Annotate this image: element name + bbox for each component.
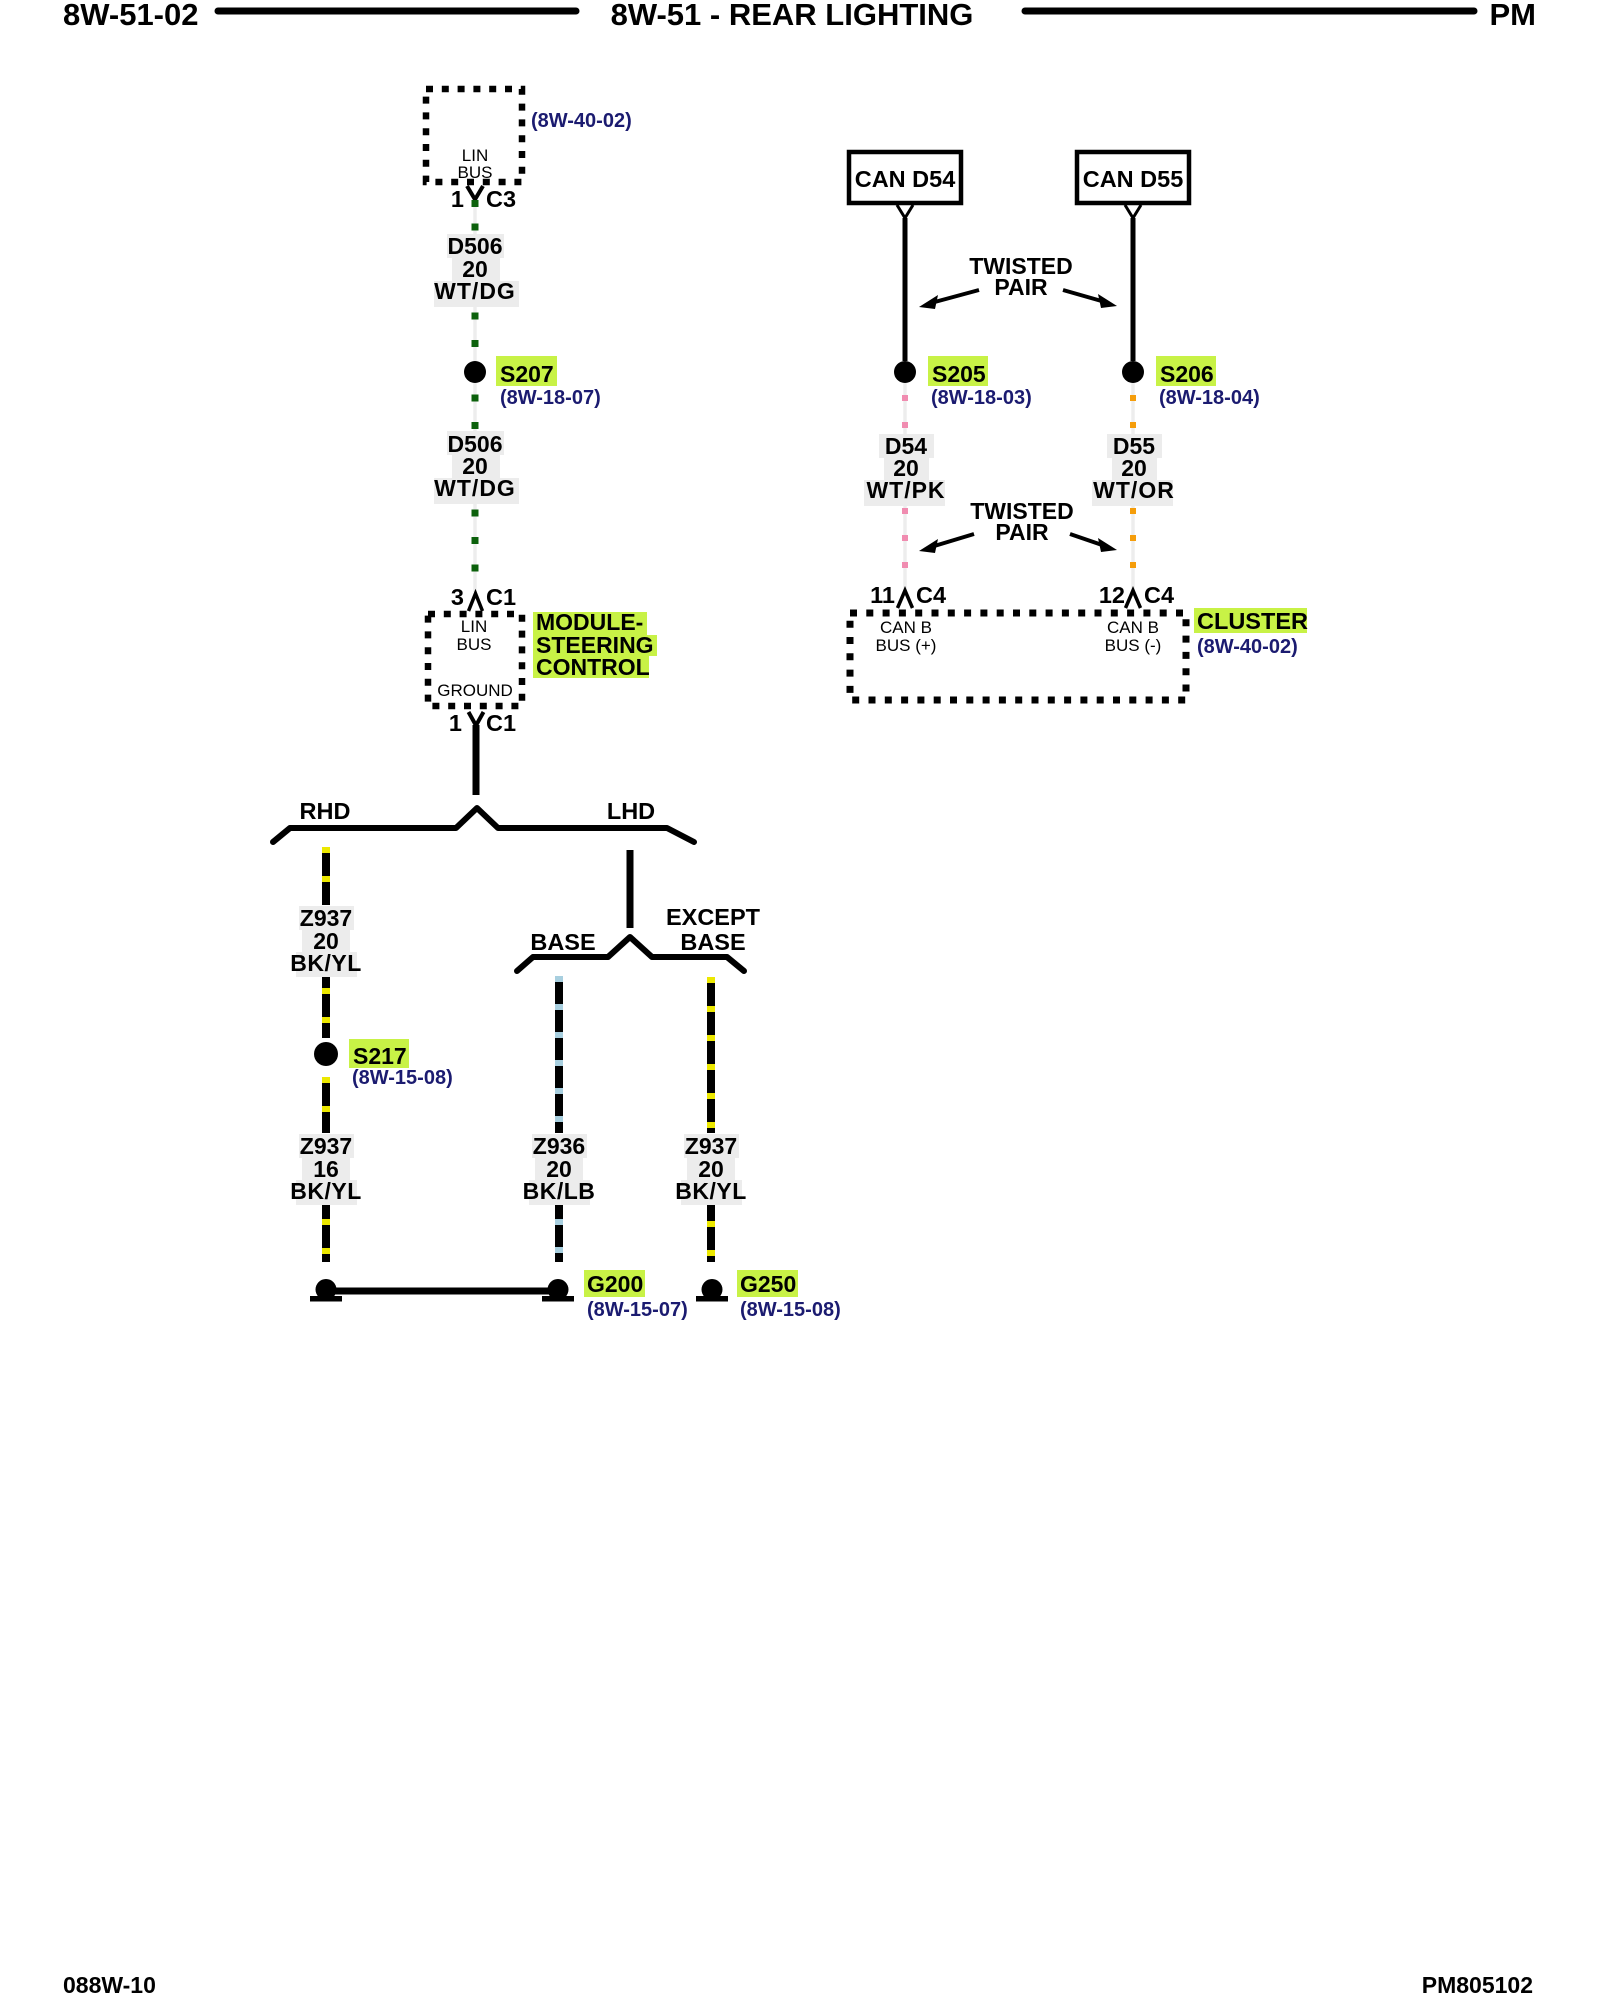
note TWISTED PAIR upper <box>969 253 1073 300</box>
wire Z937 20 BK/YL upper (RHD) <box>322 847 330 905</box>
svg-text:WT/DG: WT/DG <box>434 278 516 304</box>
wire Z937 16 BK/YL lower <box>322 1077 330 1133</box>
svg-text:PAIR: PAIR <box>995 519 1049 545</box>
header rule right <box>1025 8 1474 15</box>
arrow right lower <box>1070 534 1117 552</box>
left column <box>273 89 841 1321</box>
svg-text:C4: C4 <box>1144 582 1174 608</box>
ground G200 dome right <box>542 1279 574 1302</box>
svg-text:BUS (-): BUS (-) <box>1105 636 1162 655</box>
wire label Z937 20 BK/YL <box>290 905 362 977</box>
wire Z936 20 BK/LB (BASE) <box>555 976 563 1133</box>
LHD wire <box>627 850 634 928</box>
svg-text:BUS (+): BUS (+) <box>876 636 937 655</box>
wire Z937 to ground G250 <box>707 1205 715 1262</box>
svg-text:PM: PM <box>1490 0 1537 32</box>
svg-text:(8W-18-04): (8W-18-04) <box>1159 387 1260 409</box>
svg-text:CONTROL: CONTROL <box>536 654 650 680</box>
ground G250 label <box>737 1270 798 1297</box>
module name MODULE-STEERING CONTROL highlighted <box>533 609 657 680</box>
svg-text:BUS: BUS <box>458 163 493 182</box>
component name CLUSTER highlighted <box>1194 608 1308 634</box>
branch split BASE / EXCEPT BASE <box>517 937 744 971</box>
arrow left lower <box>919 534 974 553</box>
ground bus wire <box>326 1288 558 1295</box>
component box CLUSTER dashed <box>850 613 1186 700</box>
svg-text:(8W-15-08): (8W-15-08) <box>740 1299 841 1321</box>
svg-text:EXCEPT: EXCEPT <box>666 904 761 930</box>
header rule left <box>218 8 576 15</box>
wire label D506 20 WT/DG (upper) <box>434 233 519 307</box>
svg-text:C1: C1 <box>486 584 516 610</box>
connector pin label 12 C4 with male symbol <box>1099 582 1174 608</box>
svg-text:(8W-40-02): (8W-40-02) <box>531 110 632 132</box>
node box CAN D55 <box>1077 152 1189 203</box>
wire D54 solid upper <box>903 218 908 361</box>
connector symbol under CAN D55 <box>1125 205 1141 218</box>
svg-text:CAN D54: CAN D54 <box>855 166 956 192</box>
svg-text:BK/LB: BK/LB <box>523 1178 596 1204</box>
svg-text:BASE: BASE <box>680 929 745 955</box>
wire D54 WT/PK dotted <box>903 383 907 590</box>
svg-text:G250: G250 <box>740 1271 796 1297</box>
splice S206 <box>1122 356 1216 387</box>
svg-text:S217: S217 <box>353 1043 407 1069</box>
ground G200 label <box>584 1270 645 1297</box>
svg-text:12: 12 <box>1099 582 1125 608</box>
wire label D55 20 WT/OR <box>1092 433 1175 506</box>
branch label EXCEPT BASE <box>666 904 761 955</box>
svg-text:8W-51-02: 8W-51-02 <box>63 0 199 32</box>
svg-text:(8W-40-02): (8W-40-02) <box>1197 636 1298 658</box>
connector pin label 3 C1 with male symbol <box>451 584 516 611</box>
wire label D506 20 WT/DG (lower) <box>434 431 519 504</box>
node box CAN D54 <box>849 152 961 203</box>
svg-text:(8W-18-03): (8W-18-03) <box>931 387 1032 409</box>
svg-text:LIN: LIN <box>461 617 487 636</box>
svg-text:BK/YL: BK/YL <box>290 950 362 976</box>
wire Z937 middle (RHD) <box>322 977 330 1038</box>
splice S207 <box>464 356 557 387</box>
svg-text:1: 1 <box>449 710 462 736</box>
svg-text:BUS: BUS <box>457 635 492 654</box>
wire label Z936 20 BK/LB <box>523 1133 596 1205</box>
wire label Z937 16 BK/YL <box>290 1133 362 1205</box>
connector symbol under CAN D54 <box>897 205 913 218</box>
svg-text:3: 3 <box>451 584 464 610</box>
connector pin label 11 C4 with male symbol <box>870 582 946 608</box>
svg-text:CAN B: CAN B <box>1107 618 1159 637</box>
connector box C3 (LIN BUS, 8W-40-02) dashed <box>426 89 522 182</box>
svg-text:WT/PK: WT/PK <box>866 477 945 503</box>
svg-text:CAN D55: CAN D55 <box>1083 166 1184 192</box>
svg-text:S207: S207 <box>500 361 554 387</box>
svg-text:C1: C1 <box>486 710 516 736</box>
svg-text:CAN B: CAN B <box>880 618 932 637</box>
svg-text:PAIR: PAIR <box>994 274 1048 300</box>
module box MODULE-STEERING CONTROL dashed <box>428 614 522 706</box>
svg-text:CLUSTER: CLUSTER <box>1197 608 1308 634</box>
svg-text:S206: S206 <box>1160 361 1214 387</box>
wire Z936 to ground G200 <box>555 1205 563 1262</box>
svg-text:(8W-15-08): (8W-15-08) <box>352 1067 453 1089</box>
svg-text:BK/YL: BK/YL <box>675 1178 747 1204</box>
wire Z937 20 BK/YL (EXCEPT BASE) <box>707 977 715 1133</box>
header <box>63 0 1536 32</box>
svg-text:WT/OR: WT/OR <box>1093 477 1175 503</box>
svg-text:S205: S205 <box>932 361 986 387</box>
wire label D54 20 WT/PK <box>864 433 946 506</box>
svg-text:G200: G200 <box>587 1271 643 1297</box>
svg-text:PM805102: PM805102 <box>1422 1972 1533 1998</box>
footer <box>63 1972 1533 1998</box>
ground G250 dome <box>696 1279 728 1302</box>
note TWISTED PAIR lower <box>970 498 1074 545</box>
connector pin label 1 C3 with female symbol <box>451 186 516 212</box>
arrow right upper <box>1063 290 1117 308</box>
svg-text:(8W-18-07): (8W-18-07) <box>500 387 601 409</box>
svg-text:BK/YL: BK/YL <box>290 1178 362 1204</box>
svg-text:8W-51 - REAR LIGHTING: 8W-51 - REAR LIGHTING <box>611 0 974 32</box>
svg-text:BASE: BASE <box>530 929 595 955</box>
branch split RHD / LHD <box>273 808 694 842</box>
svg-text:11: 11 <box>870 582 895 608</box>
svg-text:1: 1 <box>451 186 464 212</box>
wire Z937 ground lead from module <box>473 725 480 795</box>
wire D55 solid upper <box>1131 218 1136 361</box>
connector pin label 1 C1 with female symbol <box>449 710 516 736</box>
svg-text:(8W-15-07): (8W-15-07) <box>587 1299 688 1321</box>
right column <box>849 152 1308 700</box>
wire D506 upper (WT/DG) <box>473 200 477 592</box>
splice S205 <box>894 356 988 387</box>
wire Z937 to ground G200 <box>322 1205 330 1262</box>
svg-text:088W-10: 088W-10 <box>63 1972 156 1998</box>
svg-text:C4: C4 <box>916 582 946 608</box>
svg-text:WT/DG: WT/DG <box>434 475 516 501</box>
svg-text:GROUND: GROUND <box>437 681 513 700</box>
arrow left upper <box>919 290 979 309</box>
svg-text:RHD: RHD <box>300 798 351 824</box>
splice S217 <box>314 1039 409 1069</box>
wire D55 WT/OR dotted <box>1131 383 1135 590</box>
wire label Z937 20 BK/YL (EXCEPT BASE) <box>675 1133 747 1205</box>
ground G200 dome left <box>310 1279 342 1302</box>
svg-text:LHD: LHD <box>607 798 655 824</box>
svg-text:C3: C3 <box>486 186 516 212</box>
